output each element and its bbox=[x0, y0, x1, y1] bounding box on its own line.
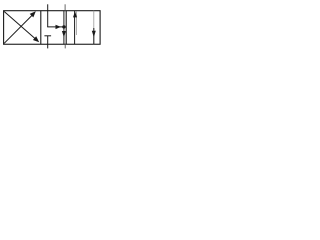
position divider line 1 bbox=[40, 11, 42, 45]
right cell faint parallel line bbox=[76, 12, 78, 36]
arrowhead of crossed arrow (up-right) bbox=[30, 11, 36, 17]
port B stub (top) bbox=[64, 4, 66, 10]
blocked port T-symbol crossbar bbox=[44, 35, 51, 37]
port P stub (bottom) bbox=[47, 44, 49, 48]
junction dot bbox=[62, 25, 65, 28]
arrowhead on V1 (down) bbox=[62, 31, 66, 37]
arrowhead on up-flow line (up) bbox=[73, 11, 77, 17]
right cell up-flow line bbox=[74, 11, 76, 45]
blocked port T-symbol stem bbox=[47, 36, 49, 44]
L-bend flow line to junction bbox=[47, 26, 64, 28]
arrowhead on horizontal flow line (right) bbox=[56, 25, 61, 29]
port A stub and stem bbox=[47, 4, 49, 27]
valve body outer rectangle bbox=[4, 11, 101, 45]
crossed flow path arrow (top-left to bottom-right) bbox=[4, 12, 36, 40]
position divider line 2 bbox=[65, 11, 67, 45]
arrowhead of crossed arrow (down-right) bbox=[33, 36, 39, 42]
crossed flow path arrow (bottom-left to top-right) bbox=[4, 15, 32, 43]
right cell down-flow line bbox=[93, 11, 95, 45]
vertical flow line V1 (B to T) bbox=[63, 11, 65, 45]
arrowhead on down-flow line (down) bbox=[92, 31, 96, 37]
port T stub (bottom) bbox=[64, 44, 66, 48]
